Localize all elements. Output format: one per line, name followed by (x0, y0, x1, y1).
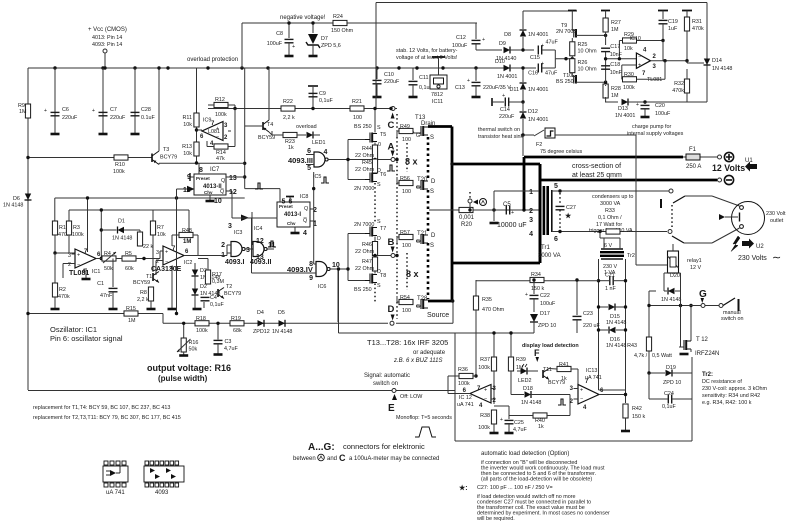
resistor R24 (333, 20, 347, 25)
svg-text:R22: R22 (283, 99, 293, 105)
wire long y313 (28, 313, 163, 315)
svg-text:230 Volt: 230 Volt (766, 211, 786, 217)
pulse glyph (558, 399, 566, 405)
diode D14 (704, 59, 711, 66)
svg-text:8 x: 8 x (405, 157, 418, 167)
wire left border vertical (27, 68, 29, 390)
svg-text:C10: C10 (384, 72, 394, 78)
svg-text:BCY79: BCY79 (224, 291, 241, 297)
svg-text:replacement for T2,T3,T11: BCY: replacement for T2,T3,T11: BCY 79, BC 30… (33, 415, 181, 421)
resistor R38 (491, 410, 496, 424)
svg-text:C4: C4 (210, 295, 217, 301)
resistor R35 (475, 280, 477, 296)
svg-text:IC10: IC10 (630, 36, 641, 42)
svg-text:R7: R7 (157, 225, 164, 231)
svg-text:C22: C22 (540, 293, 550, 299)
svg-text:12: 12 (229, 189, 237, 196)
relay coil (668, 251, 679, 273)
manual switch line (649, 305, 719, 307)
op-amp IC12 (points left) (470, 385, 491, 404)
svg-text:0,3M: 0,3M (212, 279, 224, 285)
pin6 wire (552, 231, 667, 233)
svg-text:C5: C5 (503, 202, 511, 208)
svg-text:22 Ohm: 22 Ohm (355, 249, 375, 255)
svg-text:1N 4001: 1N 4001 (615, 113, 635, 119)
resistor R31 (686, 11, 688, 18)
svg-text:+: + (482, 37, 485, 43)
supply bar T9 (568, 10, 577, 12)
svg-text:220uF: 220uF (110, 115, 126, 121)
outlet wires (685, 195, 712, 197)
svg-text:R43: R43 (627, 343, 637, 349)
svg-text:BS 250: BS 250 (556, 79, 574, 85)
svg-text:D4: D4 (257, 310, 264, 316)
svg-text:Oszillator: IC1: Oszillator: IC1 (50, 325, 97, 334)
svg-text:7812: 7812 (431, 92, 443, 98)
wire y23 rail (242, 22, 477, 24)
svg-text:100k: 100k (196, 328, 208, 334)
svg-text:∼: ∼ (772, 252, 781, 264)
svg-text:1k: 1k (288, 145, 294, 151)
svg-text:0: 0 (378, 142, 381, 148)
svg-text:0,1uF: 0,1uF (319, 98, 333, 104)
svg-text:220uF: 220uF (384, 79, 400, 85)
thick drain vertical (451, 127, 454, 302)
svg-text:22 Ohm: 22 Ohm (355, 266, 375, 272)
svg-text:at least 25 qmm: at least 25 qmm (572, 172, 622, 179)
resistor R2 (52, 283, 57, 297)
transistor T12 (679, 340, 691, 350)
resistor R37 (491, 357, 496, 371)
svg-text:BCY59: BCY59 (133, 280, 150, 286)
svg-text:D9: D9 (499, 41, 506, 47)
svg-text:50k: 50k (104, 266, 113, 272)
svg-text:220uF: 220uF (499, 114, 515, 120)
svg-text:1uF: 1uF (668, 26, 678, 32)
capacitor C18 (601, 66, 610, 69)
svg-text:R31: R31 (692, 19, 702, 25)
svg-text:C: C (388, 120, 395, 131)
wire R27 node to opamp (605, 35, 607, 45)
svg-text:D2: D2 (200, 284, 207, 290)
IC package 4093 (144, 461, 184, 487)
op-amp IC10 (636, 53, 650, 68)
svg-text:C15: C15 (530, 55, 540, 61)
wire y323 chain (163, 322, 388, 324)
svg-text:a 100uA-meter may be connecte: a 100uA-meter may be connected (349, 456, 439, 462)
svg-text:D5: D5 (278, 310, 285, 316)
svg-text:C25: C25 (514, 420, 524, 426)
svg-text:outlet: outlet (770, 218, 784, 224)
svg-text:D20: D20 (670, 273, 680, 279)
svg-text:C16: C16 (528, 71, 538, 77)
junction dots on rail (53, 66, 56, 69)
svg-text:Off: LOW: Off: LOW (400, 394, 423, 400)
svg-text:Q̅: Q̅ (303, 217, 307, 224)
thick dashed source bus (427, 137, 430, 178)
svg-text:D19: D19 (666, 365, 676, 371)
svg-text:4: 4 (324, 149, 328, 156)
wire T3 emitter to R13 bottom (158, 163, 160, 164)
svg-text:D12: D12 (528, 109, 538, 115)
svg-text:R28: R28 (611, 86, 621, 92)
svg-text:Monoflop: T≈5 seconds: Monoflop: T≈5 seconds (396, 415, 452, 421)
svg-text:−: − (638, 55, 641, 61)
svg-text:T3: T3 (163, 147, 169, 153)
svg-text:Signal: automatic: Signal: automatic (364, 373, 410, 379)
svg-text:+: + (636, 102, 639, 108)
svg-text:10: 10 (214, 198, 222, 205)
svg-text:2: 2 (68, 262, 71, 268)
switch lower (668, 230, 672, 234)
gate bus T5 T6 (347, 140, 349, 180)
svg-text:F: F (534, 348, 540, 358)
resistor R45 (372, 159, 377, 173)
svg-text:D13: D13 (618, 106, 628, 112)
svg-text:D: D (388, 304, 395, 315)
svg-text:Tr2: Tr2 (627, 253, 635, 259)
resistor R44 (372, 145, 377, 159)
svg-text:1M: 1M (128, 318, 136, 324)
svg-text:1M: 1M (611, 93, 619, 99)
wires R1 R3 bottoms (54, 235, 56, 260)
resistor R12 (214, 102, 228, 107)
svg-text:1k: 1k (538, 424, 544, 430)
capacitor C27 (559, 193, 561, 205)
svg-text:connectors for elektronic: connectors for elektronic (343, 442, 425, 451)
zener D2 (192, 289, 199, 296)
svg-text:T11: T11 (543, 367, 552, 373)
svg-text:0,001: 0,001 (459, 215, 475, 221)
svg-text:IC13: IC13 (586, 368, 597, 374)
svg-text:(pulse width): (pulse width) (158, 374, 208, 383)
capacitor C4 (201, 297, 210, 300)
svg-text:S: S (377, 219, 381, 225)
capacitor C13 (475, 68, 477, 81)
thick drain stub T13 (428, 125, 452, 128)
svg-text:1N 4148: 1N 4148 (112, 236, 132, 242)
resistor R29 (623, 38, 637, 43)
resistor R15 (124, 311, 138, 316)
resistor R48 (179, 232, 193, 237)
svg-text:2: 2 (529, 208, 533, 215)
svg-text:10 Ohm: 10 Ohm (578, 49, 598, 55)
resistor R17 (205, 270, 210, 284)
svg-text:F2: F2 (536, 142, 542, 148)
svg-text:4013-I: 4013-I (284, 212, 301, 218)
transistor T1 (153, 272, 159, 283)
svg-text:R42: R42 (632, 406, 642, 412)
resistor R20 shunt (459, 207, 473, 212)
svg-text:R25: R25 (578, 42, 588, 48)
svg-text:C23: C23 (583, 311, 593, 317)
svg-text:IC5: IC5 (313, 174, 321, 180)
svg-text:R17: R17 (212, 272, 222, 278)
resistor R18 (195, 321, 209, 326)
transistor T3 (151, 154, 153, 163)
svg-text:3: 3 (228, 223, 232, 230)
resistor R13 (194, 142, 199, 156)
svg-text:−: − (580, 396, 583, 402)
svg-text:T8: T8 (380, 273, 386, 279)
svg-text:10k: 10k (183, 151, 192, 157)
wire vertical x252 (251, 212, 253, 245)
capacitor C1 (112, 259, 114, 288)
svg-text:12: 12 (256, 238, 264, 245)
svg-text:D11: D11 (510, 87, 520, 93)
svg-text:IC1: IC1 (92, 269, 100, 275)
svg-text:C3: C3 (225, 339, 232, 345)
svg-text:D: D (431, 233, 436, 239)
secondary rails (598, 259, 600, 390)
svg-text:3: 3 (529, 217, 533, 224)
svg-text:BCY59: BCY59 (258, 135, 275, 141)
svg-text:1N 4001: 1N 4001 (528, 87, 548, 93)
transistor T8 BS250 (365, 274, 377, 284)
svg-text:R15: R15 (126, 306, 136, 312)
svg-text:8 x: 8 x (406, 269, 419, 279)
svg-text:A...G:: A...G: (308, 442, 335, 453)
svg-text:uA 741: uA 741 (106, 490, 125, 496)
svg-text:S: S (377, 283, 381, 289)
svg-text:IC 12: IC 12 (459, 395, 472, 401)
capacitor C10 (376, 68, 378, 79)
svg-text:+: + (165, 250, 168, 256)
svg-text:will be required.: will be required. (476, 516, 515, 522)
capacitor C12 (475, 23, 477, 39)
svg-text:1N 4148: 1N 4148 (521, 400, 541, 406)
thick + bus (524, 156, 683, 159)
svg-text:R24: R24 (333, 14, 343, 20)
resistor R46 (372, 242, 377, 256)
svg-text:cross-section of: cross-section of (572, 163, 621, 170)
svg-text:R19: R19 (231, 316, 241, 322)
svg-text:22 Ohm: 22 Ohm (355, 167, 375, 173)
svg-text:10k: 10k (157, 232, 166, 238)
svg-text:+: + (77, 253, 80, 259)
svg-text:+: + (484, 388, 487, 394)
svg-text:+: + (511, 210, 514, 216)
svg-text:2,2 k: 2,2 k (283, 115, 295, 121)
svg-text:D: D (431, 179, 436, 185)
svg-text:100: 100 (402, 308, 411, 314)
svg-text:+: + (292, 44, 295, 50)
capacitor C25 (508, 406, 510, 419)
svg-text:Chv: Chv (204, 190, 213, 195)
svg-text:C8: C8 (276, 31, 283, 37)
svg-text:C: C (339, 453, 346, 463)
svg-text:4,7uF: 4,7uF (513, 427, 527, 433)
svg-text:Q̅: Q̅ (220, 188, 224, 195)
svg-text:6 V: 6 V (604, 243, 612, 249)
svg-text:C18: C18 (610, 62, 620, 68)
capacitor C23 (576, 280, 578, 315)
svg-text:−: − (77, 262, 80, 268)
resistor R14 (214, 144, 228, 149)
svg-text:220uF/35 V: 220uF/35 V (483, 85, 511, 91)
svg-text:9: 9 (309, 275, 313, 282)
svg-text:Preset: Preset (279, 204, 293, 209)
svg-text:+: + (525, 292, 528, 298)
diode D6 (27, 190, 29, 208)
dotted repetition columns (406, 143, 408, 172)
wire top of R37 (339, 332, 510, 334)
svg-text:replacement for T1,T4:: replacement for T1,T4: BCY 59, BC 107, B… (33, 405, 170, 411)
zener D3 (192, 270, 199, 277)
gate IC5 4093.III (314, 152, 328, 167)
svg-text:display load detection: display load detection (522, 343, 579, 349)
svg-text:R11: R11 (183, 115, 193, 121)
svg-text:IC11: IC11 (432, 99, 443, 105)
diode D13 (605, 85, 607, 86)
svg-text:4093: 4093 (155, 490, 169, 496)
svg-text:13: 13 (229, 175, 237, 182)
svg-text:C11: C11 (419, 75, 429, 81)
LED2 (521, 368, 528, 375)
pulse glyph (387, 165, 395, 171)
switch upper (669, 189, 673, 193)
svg-text:3: 3 (156, 250, 159, 256)
svg-text:150 k: 150 k (531, 286, 544, 292)
svg-text:470k: 470k (58, 294, 70, 300)
resistor R3 (66, 221, 71, 235)
svg-text:0,1 Ohm /: 0,1 Ohm / (598, 215, 622, 221)
svg-text:230 Volts: 230 Volts (738, 255, 767, 262)
svg-text:12 V: 12 V (690, 265, 701, 271)
ground D2 chain (194, 304, 196, 308)
svg-text:220uF: 220uF (62, 115, 78, 121)
svg-text:R56: R56 (400, 176, 410, 182)
svg-text:uA 741: uA 741 (585, 375, 602, 381)
wire top border (376, 2, 707, 4)
capacitor C15 (538, 46, 541, 55)
svg-text:8: 8 (199, 167, 203, 174)
svg-text:22 k: 22 k (143, 244, 153, 250)
wire top rail y68 (28, 67, 528, 69)
diode D11 (522, 68, 524, 82)
svg-text:1N 4001: 1N 4001 (497, 74, 517, 80)
op-amp IC1 (75, 249, 96, 268)
svg-text:IC4: IC4 (254, 226, 262, 232)
transformer Tr1 (539, 164, 542, 263)
svg-text:100uF: 100uF (540, 301, 556, 307)
svg-text:1N 4148: 1N 4148 (606, 343, 626, 349)
transformer Tr2 (601, 248, 623, 250)
svg-text:D6: D6 (13, 196, 20, 202)
diode D5 (279, 320, 286, 327)
op-amp IC2 (163, 246, 184, 265)
svg-text:C14: C14 (500, 107, 510, 113)
svg-text:150 Ohm: 150 Ohm (331, 28, 354, 34)
svg-text:250 A: 250 A (686, 164, 701, 170)
svg-text:uA 741: uA 741 (457, 402, 474, 408)
svg-text:C19: C19 (668, 19, 678, 25)
svg-text:+ Vcc (CMOS): + Vcc (CMOS) (88, 27, 127, 33)
svg-text:4: 4 (529, 231, 533, 238)
op-amp IC9 (points left) (202, 122, 223, 141)
transistor T11 (543, 369, 549, 380)
svg-text:75 degree celsius: 75 degree celsius (540, 149, 583, 155)
gate IC3 4093.I (231, 242, 245, 257)
svg-text:4093.III: 4093.III (288, 156, 313, 165)
wire T3 collector up (158, 68, 160, 151)
resistor R41 (557, 366, 571, 371)
svg-text:230 V-coil: approx. 3 kOhm: 230 V-coil: approx. 3 kOhm (702, 386, 768, 392)
svg-text:1N 4148: 1N 4148 (272, 329, 292, 335)
svg-text:C17: C17 (610, 44, 620, 50)
svg-text:U2: U2 (756, 244, 764, 250)
wire shunt line (429, 209, 539, 211)
svg-text:1M: 1M (611, 27, 619, 33)
wire IC1 out (96, 258, 102, 260)
pulse glyph after IC4 (268, 241, 276, 247)
svg-text:+: + (580, 388, 583, 394)
svg-text:470k: 470k (672, 88, 684, 94)
svg-text:D17: D17 (540, 311, 550, 317)
svg-text:1M: 1M (19, 109, 27, 115)
svg-text:10nF: 10nF (610, 52, 623, 58)
svg-text:4: 4 (303, 230, 307, 237)
svg-text:−: − (484, 396, 487, 402)
svg-text:22 Ohm: 22 Ohm (355, 153, 375, 159)
wire bottom long line (28, 390, 455, 392)
svg-text:automatic load detection (Opt: automatic load detection (Option) (481, 451, 569, 457)
regulator IC11 7812 (430, 75, 447, 89)
resistor R7 (150, 221, 155, 235)
capacitor C20 (643, 100, 646, 103)
svg-text:D: D (377, 168, 381, 174)
pin1 wire (494, 190, 539, 192)
svg-text:R47: R47 (362, 259, 372, 265)
svg-text:R8: R8 (140, 290, 147, 296)
wire IC3 inputs from IC2 out (198, 255, 227, 257)
svg-text:R26: R26 (578, 60, 588, 66)
svg-text:47k: 47k (216, 156, 225, 162)
svg-text:5: 5 (307, 165, 311, 172)
svg-text:E: E (388, 403, 395, 414)
svg-text:TL081: TL081 (647, 77, 662, 83)
svg-text:R46: R46 (362, 242, 372, 248)
svg-text:+: + (92, 108, 95, 114)
svg-text:C12: C12 (456, 35, 466, 41)
resistor R32 (684, 79, 689, 93)
wire box right x244.7 (244, 68, 246, 189)
svg-text:10k: 10k (624, 46, 633, 52)
svg-text:C6: C6 (62, 107, 69, 113)
resistor R39 (508, 357, 513, 371)
svg-text:Tr2:: Tr2: (702, 372, 713, 378)
svg-text:BCY79: BCY79 (160, 155, 177, 161)
svg-text:DC resistance of: DC resistance of (702, 379, 742, 385)
svg-text:1N 4148: 1N 4148 (606, 320, 626, 326)
svg-text:1k: 1k (561, 376, 567, 382)
resistor R9 (27, 68, 29, 130)
svg-text:Q: Q (304, 206, 308, 212)
svg-text:100uF: 100uF (452, 43, 468, 49)
svg-text:−: − (165, 259, 168, 265)
wire negative line y198 (55, 197, 245, 199)
plus terminal (724, 152, 733, 161)
svg-text:B: B (388, 237, 395, 248)
Vcc terminal (103, 49, 107, 53)
svg-text:100: 100 (402, 189, 411, 195)
resistor R47 (372, 257, 377, 271)
svg-text:internal supply voltages: internal supply voltages (627, 131, 684, 137)
svg-text:1N 4148: 1N 4148 (3, 203, 23, 209)
svg-text:2N 7000: 2N 7000 (354, 186, 374, 192)
svg-text:R1: R1 (59, 225, 66, 231)
svg-text:T2: T2 (226, 284, 232, 290)
